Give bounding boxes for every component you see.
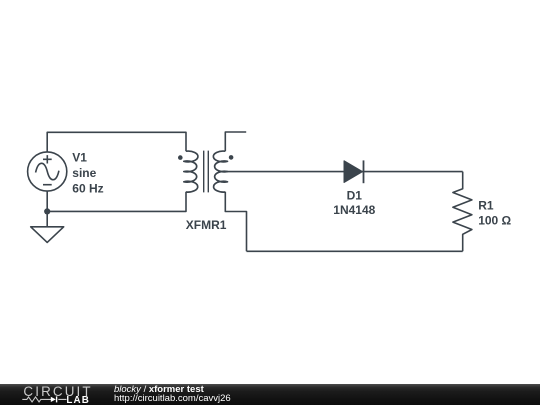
ground bbox=[31, 227, 64, 243]
svg-text:sine: sine bbox=[72, 166, 96, 180]
transformer core lines bbox=[204, 151, 209, 193]
svg-text:R1: R1 bbox=[478, 198, 494, 212]
transformer XFMR1 secondary coil bbox=[213, 151, 227, 192]
secondary dot bbox=[229, 155, 234, 160]
footer bar bbox=[0, 384, 540, 405]
svg-text:100 Ω: 100 Ω bbox=[478, 214, 511, 228]
V1 plus sign bbox=[43, 155, 52, 163]
svg-text:D1: D1 bbox=[347, 188, 363, 202]
svg-text:LAB: LAB bbox=[66, 395, 90, 405]
voltage source V1 bbox=[28, 152, 67, 191]
wire secondary tap to R1 (diode net) bbox=[225, 171, 462, 173]
wire junction to ground bbox=[46, 211, 48, 226]
primary dot bbox=[178, 155, 183, 160]
V1 minus sign bbox=[43, 184, 52, 186]
V1 sine symbol bbox=[36, 163, 59, 179]
svg-text:XFMR1: XFMR1 bbox=[186, 218, 227, 232]
svg-text:60 Hz: 60 Hz bbox=[72, 182, 103, 196]
wire top net: V1 top to primary top bbox=[47, 132, 186, 152]
transformer XFMR1 primary coil bbox=[184, 151, 198, 192]
secondary bottom wire to bottom net bbox=[225, 192, 246, 252]
wire V1 bottom to primary bottom bbox=[47, 191, 186, 211]
diode D1 bbox=[344, 160, 363, 183]
CircuitLab logo bbox=[0, 384, 110, 405]
node junction at V1 bottom bbox=[44, 208, 50, 214]
bottom wire net bbox=[247, 250, 463, 252]
svg-text:1N4148: 1N4148 bbox=[333, 203, 375, 217]
svg-text:V1: V1 bbox=[72, 150, 87, 164]
resistor R1 bbox=[453, 172, 472, 252]
secondary top stub wire bbox=[225, 132, 246, 151]
